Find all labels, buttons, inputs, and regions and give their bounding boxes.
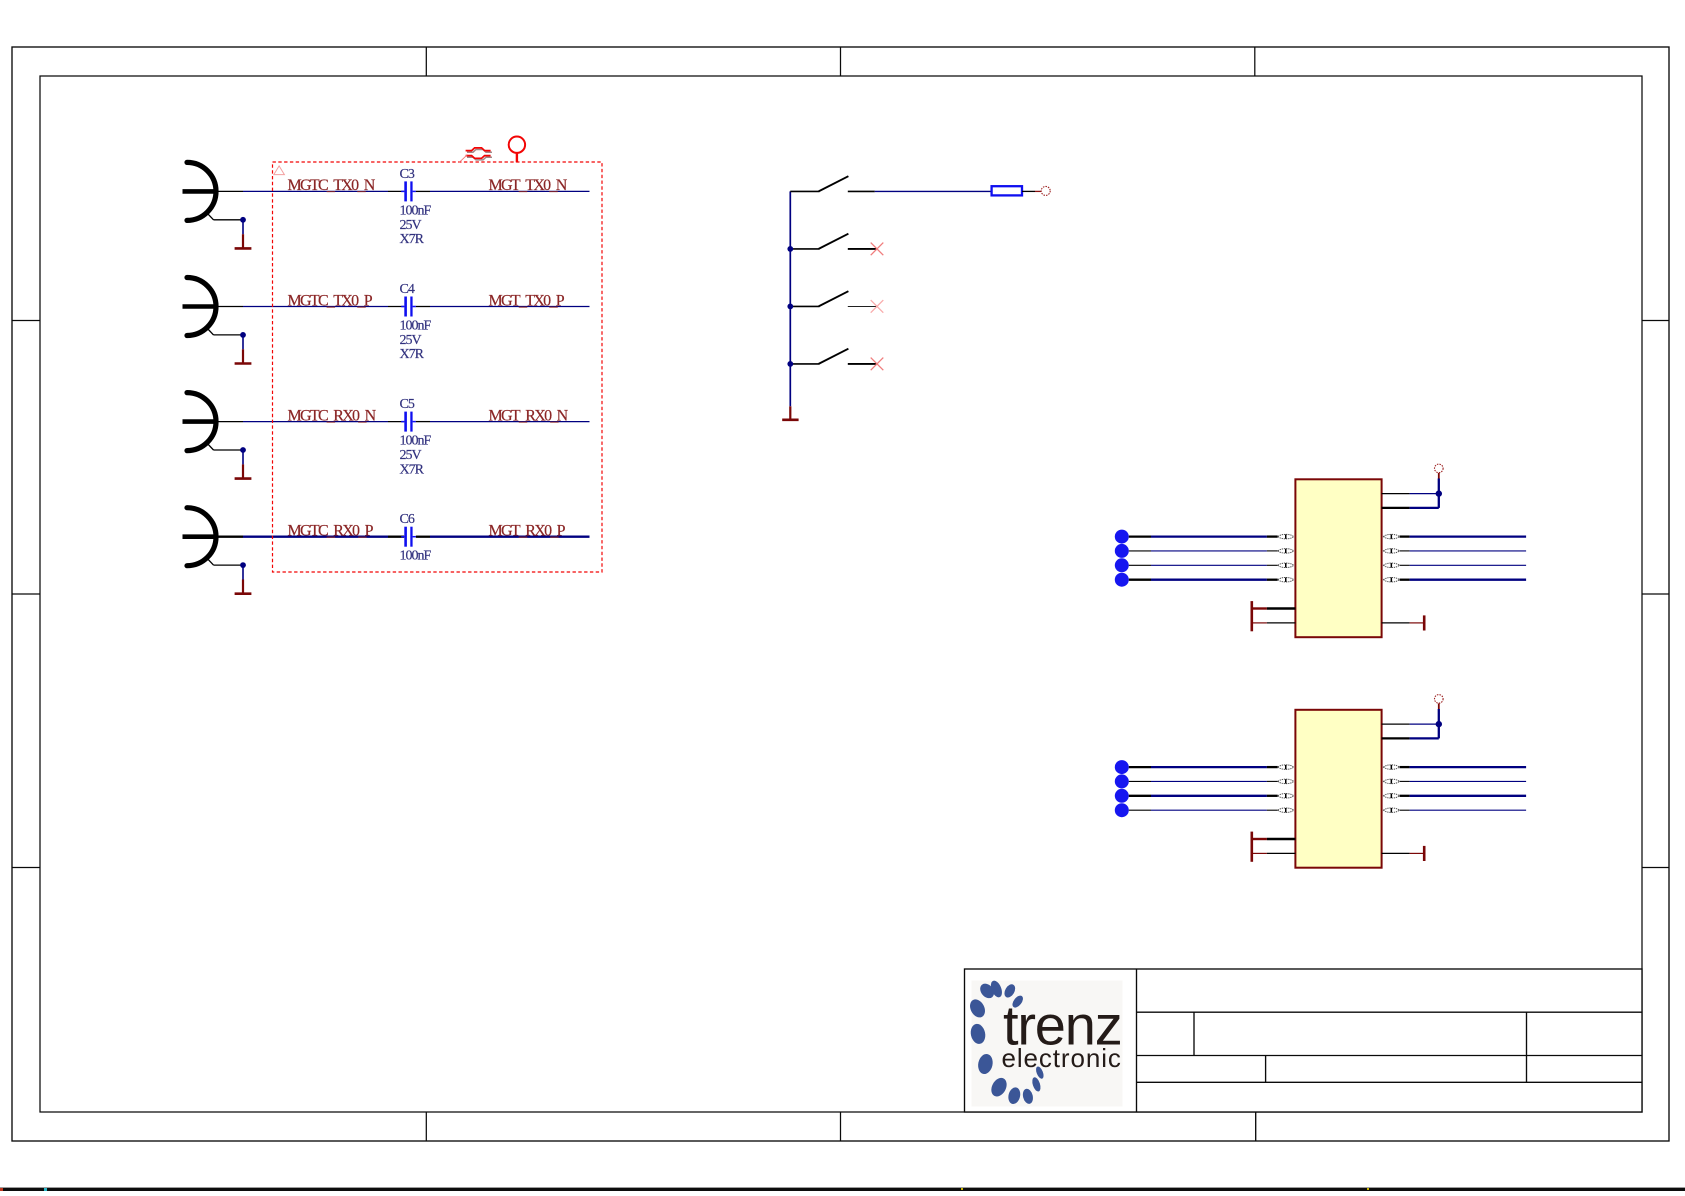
pin stub (U1 left row 3) (1267, 564, 1278, 566)
title block (965, 969, 1643, 1141)
capacitor C3 (388, 181, 430, 201)
pin (U2 top-right 2) (1382, 737, 1410, 739)
svg-text:MGTC_RX0_N: MGTC_RX0_N (288, 407, 377, 424)
svg-text:C5: C5 (400, 397, 415, 412)
wire (right row 1 U1) (1410, 535, 1527, 537)
diode lens marker (U1 left row 4) (1278, 577, 1294, 582)
wire (switch 1 to resistor) (875, 190, 992, 192)
wire (U2 pin2 elbow) (1410, 709, 1439, 738)
wire (left row 3 U1) (1151, 564, 1267, 566)
svg-text:electronic: electronic (1002, 1043, 1122, 1073)
value label C4: 100nF / 25V / X7R (400, 319, 432, 363)
pin (block U2 left row 2) (1129, 780, 1151, 782)
junction dot (connector 1 shield) (240, 217, 246, 223)
pin stub (U2 right row 2) (1400, 780, 1410, 782)
wire (U2 pin1 to vcc node) (1410, 723, 1439, 725)
value label C3: 100nF / 25V / X7R (400, 203, 432, 247)
pin (block U1 left row 3) (1129, 564, 1151, 566)
pin (U2 bottom-left 2) (1252, 852, 1296, 854)
coax connector J1 (MGTC_TX0_N) (183, 162, 244, 220)
diode lens marker (U1 left row 3) (1278, 563, 1294, 568)
wire (shield to ground 4) (242, 565, 244, 579)
wire (right row 1 U2) (1410, 766, 1527, 768)
capacitor C4 (388, 297, 430, 317)
pin stub (U2 right row 3) (1400, 795, 1410, 797)
pin (block U1 left row 4) (1129, 579, 1151, 581)
port dot (block U1 row 2) (1115, 544, 1129, 558)
svg-text:25V: 25V (400, 218, 422, 233)
svg-text:MGT_RX0_P: MGT_RX0_P (489, 523, 566, 540)
wire (left row 3 U2) (1151, 795, 1267, 797)
wire (right row 4 U1) (1410, 579, 1527, 581)
pin (U1 bottom-left 1) (1252, 607, 1296, 609)
diode lens marker (U2 right row 4) (1384, 808, 1400, 813)
switch SW3 (790, 291, 877, 306)
diode lens marker (U1 right row 2) (1384, 549, 1400, 554)
value label C5: 100nF / 25V / X7R (400, 434, 432, 478)
termination bar (U2 bottom-left) (1251, 832, 1254, 862)
wire MGT_TX0_N (430, 190, 590, 192)
wire MGTC_TX0_P (243, 306, 388, 308)
wire (right row 2 U2) (1410, 780, 1527, 782)
wire (right row 2 U1) (1410, 550, 1527, 552)
wire (shield to ground 3) (242, 450, 244, 464)
wire (left row 2 U1) (1151, 550, 1267, 552)
pin (U1 bottom-left 2) (1252, 622, 1296, 624)
power stub (U2) (1438, 704, 1440, 710)
svg-text:MGTC_TX0_N: MGTC_TX0_N (288, 177, 376, 194)
svg-text:100nF: 100nF (400, 319, 432, 334)
no-ERC cross (switch 4) (871, 358, 884, 371)
svg-text:25V: 25V (400, 448, 422, 463)
port dot (block U2 row 3) (1115, 789, 1129, 803)
svg-text:100nF: 100nF (400, 549, 432, 564)
pin stub (U2 left row 3) (1267, 795, 1278, 797)
port dot (block U2 row 1) (1115, 760, 1129, 774)
wire (U1 pin2 elbow) (1410, 479, 1439, 508)
diode lens marker (U1 right row 4) (1384, 577, 1400, 582)
pin (block U2 left row 1) (1129, 766, 1151, 768)
svg-text:C3: C3 (400, 167, 415, 182)
resistor (series) (992, 186, 1022, 195)
port dot (block U1 row 3) (1115, 558, 1129, 572)
pin (block U2 left row 3) (1129, 795, 1151, 797)
pin (U2 top-right 1) (1382, 723, 1410, 725)
junction dot (switch 4) (787, 361, 793, 367)
bottom screen bar (0, 1188, 1685, 1191)
pin stub (U1 left row 2) (1267, 550, 1278, 552)
diode lens marker (U2 left row 1) (1278, 765, 1294, 770)
wire (left row 2 U2) (1151, 780, 1267, 782)
wire MGT_TX0_P (430, 306, 590, 308)
junction dot (switch 3) (787, 304, 793, 310)
open pin circle (no connect) (1041, 186, 1050, 195)
pin (connector 1 signal) (216, 190, 243, 192)
diode lens marker (U2 right row 3) (1384, 794, 1400, 799)
wire (switch common vertical) (789, 191, 791, 406)
wire (U1 pin1 to vcc node) (1410, 493, 1439, 495)
wire (left row 1 U2) (1151, 766, 1267, 768)
svg-text:MGT_TX0_N: MGT_TX0_N (489, 177, 568, 194)
ground (connector 2) (235, 349, 252, 363)
coax connector J4 (MGTC_RX0_P) (183, 508, 244, 566)
svg-text:X7R: X7R (400, 347, 425, 362)
svg-text:MGTC_RX0_P: MGTC_RX0_P (288, 523, 374, 540)
pin stub (U1 right row 1) (1400, 535, 1410, 537)
pin (resistor right) (1022, 190, 1035, 192)
pin stub (U1 right row 4) (1400, 579, 1410, 581)
value label C6: 100nF (400, 549, 432, 564)
svg-text:100nF: 100nF (400, 203, 432, 218)
diode lens marker (U2 right row 1) (1384, 765, 1400, 770)
IC block U2 (sheet symbol) (1295, 710, 1381, 868)
pin (U2 bottom-left 1) (1252, 838, 1296, 840)
wire (shield to ground 2) (242, 335, 244, 349)
open power circle (U2) (1435, 695, 1444, 704)
blanket directive box (red dashed) (273, 162, 603, 572)
junction dot (connector 4 shield) (240, 562, 246, 568)
svg-text:X7R: X7R (400, 462, 425, 477)
diode lens marker (U1 left row 1) (1278, 534, 1294, 539)
pin (block U1 left row 1) (1129, 535, 1151, 537)
termination bar (U1 bottom-left) (1251, 601, 1254, 631)
junction dot (connector 3 shield) (240, 447, 246, 453)
wire MGTC_RX0_P (243, 536, 388, 538)
differential pair directive (459, 148, 492, 163)
capacitor C5 (388, 412, 430, 432)
wire (shield to ground 1) (242, 220, 244, 234)
termination bar (U2 bottom-right) (1423, 846, 1426, 861)
pin (U2 bottom-right) (1382, 852, 1425, 854)
junction dot (U2 vcc node) (1436, 721, 1442, 727)
ground (connector 1) (235, 234, 252, 248)
diode lens marker (U2 left row 4) (1278, 808, 1294, 813)
switch SW4 (790, 349, 877, 364)
diode lens marker (U2 right row 2) (1384, 779, 1400, 784)
wire (left row 1 U1) (1151, 535, 1267, 537)
capacitor C6 (388, 527, 430, 547)
no-ERC cross (switch 3) (871, 300, 884, 313)
junction dot (connector 2 shield) (240, 332, 246, 338)
pin stub (U1 left row 1) (1267, 535, 1278, 537)
blanket collapse triangle (274, 166, 285, 175)
parameter set balloon (509, 137, 525, 163)
coax connector J3 (MGTC_RX0_N) (183, 393, 244, 451)
logo trenz electronic (967, 979, 1122, 1106)
ground (switch common) (782, 406, 798, 420)
pin (connector 2 signal) (216, 306, 243, 308)
pin (U1 bottom-right) (1382, 622, 1425, 624)
diode lens marker (U1 right row 1) (1384, 534, 1400, 539)
diode lens marker (U1 left row 2) (1278, 549, 1294, 554)
switch SW1 (790, 176, 875, 191)
open power circle (U1) (1435, 464, 1444, 473)
pin stub (U2 right row 1) (1400, 766, 1410, 768)
svg-text:C6: C6 (400, 512, 415, 527)
ground (connector 4) (235, 580, 252, 594)
termination bar (U1 bottom-right) (1423, 615, 1426, 630)
coax connector J2 (MGTC_TX0_P) (183, 278, 244, 336)
pin (block U2 left row 4) (1129, 809, 1151, 811)
diode lens marker (U1 right row 3) (1384, 563, 1400, 568)
junction dot (U1 vcc node) (1436, 490, 1442, 496)
pin stub (U2 left row 1) (1267, 766, 1278, 768)
no-ERC cross (switch 2) (871, 243, 884, 256)
pin (connector 3 signal) (216, 421, 243, 423)
pin stub (U1 right row 2) (1400, 550, 1410, 552)
pin stub (U1 left row 4) (1267, 579, 1278, 581)
wire MGTC_TX0_N (243, 190, 388, 192)
pin stub (U1 right row 3) (1400, 564, 1410, 566)
wire MGT_RX0_P (430, 536, 590, 538)
pin stub (U2 left row 2) (1267, 780, 1278, 782)
port dot (block U1 row 1) (1115, 530, 1129, 544)
wire MGTC_RX0_N (243, 421, 388, 423)
pin (connector 4 signal) (216, 536, 243, 538)
wire (right row 4 U2) (1410, 809, 1527, 811)
junction dot (switch 2) (787, 246, 793, 252)
wire (left row 4 U1) (1151, 579, 1267, 581)
port dot (block U2 row 4) (1115, 803, 1129, 817)
svg-text:MGT_TX0_P: MGT_TX0_P (489, 292, 565, 309)
wire (left row 4 U2) (1151, 809, 1267, 811)
pin (block U1 left row 2) (1129, 550, 1151, 552)
svg-text:100nF: 100nF (400, 434, 432, 449)
ground (connector 3) (235, 464, 252, 478)
power stub (U1) (1438, 473, 1440, 479)
port dot (block U1 row 4) (1115, 573, 1129, 587)
IC block U1 (sheet symbol) (1295, 479, 1381, 637)
diode lens marker (U2 left row 3) (1278, 794, 1294, 799)
svg-text:C4: C4 (400, 282, 415, 297)
pin (U1 top-right 1) (1382, 493, 1410, 495)
switch SW2 (790, 234, 877, 249)
wire MGT_RX0_N (430, 421, 590, 423)
pin (U1 top-right 2) (1382, 507, 1410, 509)
pin stub (U2 left row 4) (1267, 809, 1278, 811)
svg-text:MGT_RX0_N: MGT_RX0_N (489, 407, 569, 424)
diode lens marker (U2 left row 2) (1278, 779, 1294, 784)
svg-text:25V: 25V (400, 333, 422, 348)
wire (right row 3 U1) (1410, 564, 1527, 566)
svg-text:MGTC_TX0_P: MGTC_TX0_P (288, 292, 373, 309)
svg-text:X7R: X7R (400, 232, 425, 247)
pin stub (U2 right row 4) (1400, 809, 1410, 811)
wire (right row 3 U2) (1410, 795, 1527, 797)
port dot (block U2 row 2) (1115, 774, 1129, 788)
